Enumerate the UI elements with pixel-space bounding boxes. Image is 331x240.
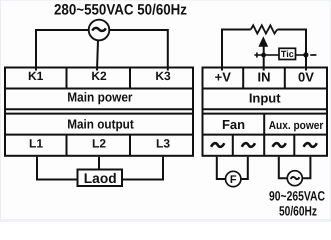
terminal ~ 4 [304,143,317,147]
page edge tint left [0,0,1,222]
potentiometer R1 top loop wire right [277,30,306,71]
svg-text:Input: Input [249,90,281,105]
AC source V2 bottom [287,171,302,186]
svg-text:Tic: Tic [281,49,294,59]
terminal block TB1 frame [5,68,193,156]
potentiometer R1 wiper arrow [258,36,268,47]
node junction on 0V wire [303,52,308,57]
wire Tic box to 0V wire [296,54,307,56]
svg-text:K3: K3 [155,69,171,83]
svg-text:Aux. power: Aux. power [269,120,324,132]
svg-text:L1: L1 [29,136,43,150]
svg-text:0V: 0V [298,70,314,85]
AC source V1 top [89,20,110,41]
terminal ~ 3 [273,143,286,147]
wire fan terminal 2 down [241,157,248,179]
terminal ~ 2 [242,143,255,147]
wire L3 to load [121,157,163,180]
Tic box [279,48,296,59]
wire source to K2 [97,40,98,70]
page edge tint bottom [0,219,331,222]
wire L2 to load [98,157,100,170]
terminal block TB2 frame [203,68,328,156]
terminal block TB2 top row dividers [243,68,285,89]
wire L1 to load [37,157,78,180]
svg-text:280~550VAC 50/60Hz: 280~550VAC 50/60Hz [54,2,187,19]
terminal block TB1 K-row dividers [67,68,131,89]
svg-text:+V: +V [215,70,232,85]
page edge tint right [330,0,331,222]
terminal block TB2 fan/aux divider [263,114,265,135]
wire wiper to IN [263,46,265,71]
wire source to K1 [36,30,89,71]
svg-text:Fan: Fan [222,117,245,132]
potentiometer R1 resistor zigzag [251,25,278,33]
minus label [310,54,316,56]
wire aux terminal 1 down [279,157,288,178]
terminal block TB2 ac-row dividers [233,135,294,156]
terminal ~ 1 [211,143,224,147]
plus label [254,52,263,57]
svg-text:L3: L3 [156,136,170,150]
svg-text:K1: K1 [28,69,44,83]
svg-text:Laod: Laod [84,170,117,186]
wire source to K3 [109,30,168,71]
svg-text:K2: K2 [91,69,107,83]
svg-text:50/60Hz: 50/60Hz [279,204,317,219]
load box Laod [78,170,123,187]
svg-text:F: F [230,174,237,186]
wire aux terminal 2 down [302,157,310,178]
fan motor F [226,171,241,186]
page edge tint top [0,0,331,1]
wire junction to Tic box [264,54,279,56]
wire fan terminal 1 down [217,157,226,179]
node junction on IN wire [261,53,266,58]
svg-text:Main power: Main power [67,89,132,104]
potentiometer R1 top loop wire left [222,30,251,71]
svg-text:90~265VAC: 90~265VAC [269,189,325,204]
terminal block TB1 L-row dividers [67,135,131,156]
svg-text:Main output: Main output [67,116,134,131]
svg-text:IN: IN [258,70,271,85]
svg-text:L2: L2 [92,136,106,150]
